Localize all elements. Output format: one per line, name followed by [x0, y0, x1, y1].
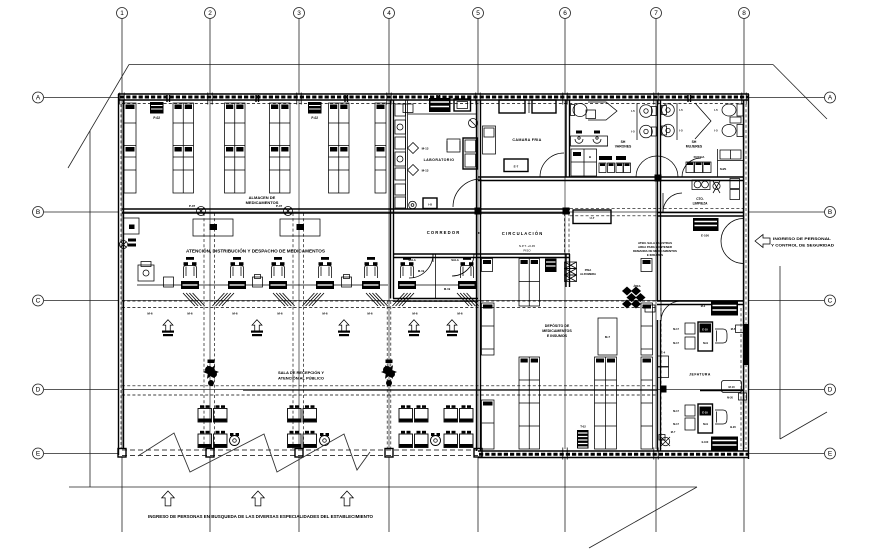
svg-text:C I R C U L A C I Ó N: C I R C U L A C I Ó N — [502, 231, 543, 236]
svg-text:I-5: I-5 — [679, 129, 683, 133]
svg-text:P-02: P-02 — [153, 116, 160, 120]
svg-text:T-02: T-02 — [580, 425, 586, 429]
svg-text:SALA DE RECEPCIÓN Y: SALA DE RECEPCIÓN Y — [278, 370, 324, 375]
svg-text:B-20: B-20 — [730, 425, 736, 429]
svg-text:SH/S: SH/S — [720, 167, 727, 171]
svg-text:M-6: M-6 — [322, 312, 327, 316]
svg-text:P-07: P-07 — [189, 204, 196, 208]
svg-text:M-19: M-19 — [444, 287, 451, 291]
svg-text:E: E — [828, 451, 833, 458]
svg-text:SH: SH — [692, 140, 697, 144]
svg-text:M-9: M-9 — [703, 341, 708, 345]
svg-text:C O R R E D O R: C O R R E D O R — [427, 230, 460, 235]
svg-text:M-17: M-17 — [673, 409, 679, 413]
svg-text:E INSUMOS: E INSUMOS — [647, 253, 663, 257]
svg-text:6: 6 — [563, 10, 567, 17]
svg-text:A: A — [828, 95, 833, 102]
svg-text:B: B — [36, 209, 40, 216]
svg-text:M-5: M-5 — [731, 327, 736, 331]
svg-text:M-20: M-20 — [727, 396, 733, 400]
svg-text:MUJERES: MUJERES — [686, 145, 703, 149]
svg-text:M-13: M-13 — [422, 169, 429, 173]
svg-text:I-5: I-5 — [631, 109, 635, 113]
svg-text:M-10: M-10 — [728, 385, 735, 389]
svg-text:E-100: E-100 — [701, 234, 709, 238]
svg-text:E-7: E-7 — [514, 165, 519, 169]
svg-text:SALA: SALA — [408, 258, 416, 262]
svg-text:E-4: E-4 — [661, 351, 666, 355]
svg-text:A: A — [36, 95, 41, 102]
svg-text:1: 1 — [120, 10, 124, 17]
svg-text:M-6: M-6 — [412, 312, 417, 316]
svg-text:SH: SH — [621, 140, 626, 144]
svg-text:►: ► — [477, 231, 481, 235]
svg-text:8: 8 — [742, 10, 746, 17]
svg-text:ATENCIÓN AL PÚBLICO: ATENCIÓN AL PÚBLICO — [278, 376, 324, 381]
svg-text:E-100: E-100 — [702, 441, 709, 444]
svg-text:ALFOMBRA: ALFOMBRA — [580, 272, 596, 276]
svg-text:LABORATORIO: LABORATORIO — [424, 158, 455, 162]
svg-text:DEPÓSITO DE: DEPÓSITO DE — [545, 323, 570, 328]
svg-text:I-5: I-5 — [714, 108, 718, 112]
svg-text:M-6: M-6 — [277, 312, 282, 316]
svg-text:M-?: M-? — [671, 430, 676, 434]
svg-text:CAMARA FRIA: CAMARA FRIA — [512, 138, 541, 142]
svg-text:LIMPIEZA: LIMPIEZA — [693, 202, 709, 206]
svg-text:E-10: E-10 — [702, 411, 708, 415]
svg-text:N.P.T. +0.45: N.P.T. +0.45 — [519, 244, 536, 248]
svg-text:E INSUMOS: E INSUMOS — [547, 334, 568, 338]
svg-text:E-10: E-10 — [702, 328, 708, 332]
svg-text:Y CONTROL DE SEGURIDAD: Y CONTROL DE SEGURIDAD — [771, 243, 834, 248]
svg-text:JEFATURA: JEFATURA — [689, 373, 711, 377]
svg-text:SALA: SALA — [451, 258, 459, 262]
svg-text:C: C — [36, 298, 41, 305]
svg-text:M-3: M-3 — [701, 304, 706, 308]
svg-text:M-6: M-6 — [187, 312, 192, 316]
svg-text:4: 4 — [387, 10, 391, 17]
svg-text:M-17: M-17 — [673, 341, 679, 345]
svg-text:INGRESO DE PERSONAL: INGRESO DE PERSONAL — [773, 236, 832, 241]
svg-text:PISO: PISO — [523, 249, 531, 253]
svg-text:5: 5 — [476, 10, 480, 17]
svg-text:P-02: P-02 — [311, 116, 318, 120]
svg-text:P-07: P-07 — [276, 204, 283, 208]
svg-text:VARONES: VARONES — [615, 145, 632, 149]
svg-text:2: 2 — [208, 10, 212, 17]
svg-text:U-7: U-7 — [590, 216, 595, 220]
svg-text:M-17: M-17 — [673, 327, 679, 331]
svg-text:M-9: M-9 — [703, 422, 708, 426]
svg-text:D: D — [36, 387, 41, 394]
svg-text:MEDICAMENTOS: MEDICAMENTOS — [542, 329, 572, 333]
svg-text:M-6: M-6 — [147, 312, 152, 316]
svg-text:B: B — [828, 209, 832, 216]
svg-text:D: D — [828, 387, 833, 394]
svg-text:MEDICAMENTOS: MEDICAMENTOS — [246, 200, 279, 205]
svg-text:I-5: I-5 — [679, 108, 683, 112]
svg-text:M-7: M-7 — [605, 335, 610, 339]
svg-text:CTO.: CTO. — [696, 197, 704, 201]
svg-text:B: B — [589, 155, 591, 159]
svg-text:ATENCIÓN, DISTRIBUCIÓN Y DESPA: ATENCIÓN, DISTRIBUCIÓN Y DESPACHO DE MED… — [186, 249, 325, 254]
svg-text:M-6: M-6 — [457, 312, 462, 316]
svg-text:M-17: M-17 — [673, 422, 679, 426]
svg-text:I-5: I-5 — [714, 129, 718, 133]
svg-text:C: C — [828, 298, 833, 305]
svg-text:E: E — [36, 451, 41, 458]
svg-text:3: 3 — [297, 10, 301, 17]
svg-text:I-5: I-5 — [631, 130, 635, 134]
svg-text:I-8: I-8 — [428, 203, 432, 207]
svg-text:M-6: M-6 — [232, 312, 237, 316]
svg-text:M-19: M-19 — [418, 269, 425, 273]
svg-text:INGRESO DE PERSONAS EN BUSQUED: INGRESO DE PERSONAS EN BUSQUEDA DE LAS D… — [148, 514, 374, 519]
svg-text:M-13: M-13 — [422, 147, 429, 151]
svg-text:7: 7 — [654, 10, 658, 17]
svg-text:M-6: M-6 — [367, 312, 372, 316]
